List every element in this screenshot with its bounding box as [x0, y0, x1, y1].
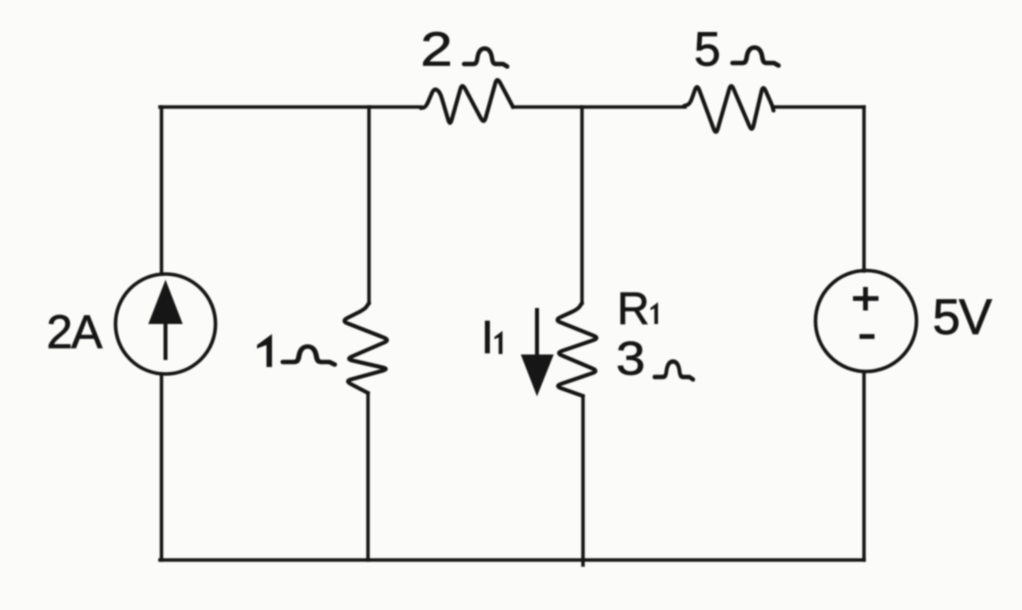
svg-text:2: 2	[421, 23, 453, 76]
svg-text:5V: 5V	[933, 289, 993, 345]
svg-text:R: R	[617, 283, 650, 334]
svg-text:3: 3	[616, 332, 645, 385]
svg-text:2A: 2A	[47, 305, 104, 358]
svg-text:5: 5	[694, 24, 721, 77]
svg-text:I: I	[481, 311, 494, 363]
